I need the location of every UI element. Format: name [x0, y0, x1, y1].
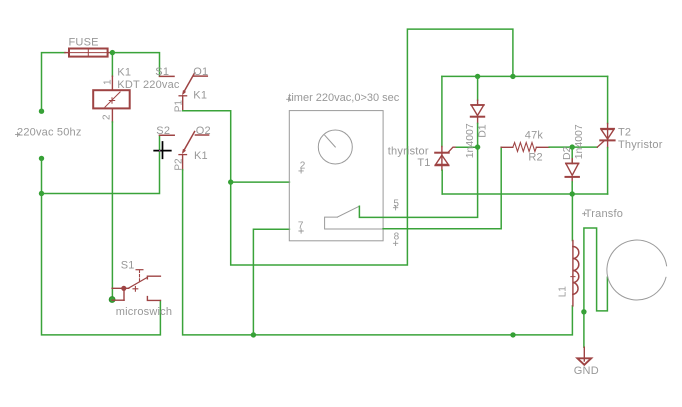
svg-text:timer 220vac,0>30 sec: timer 220vac,0>30 sec [288, 92, 399, 104]
svg-text:microswich: microswich [116, 306, 172, 318]
svg-text:S2: S2 [156, 125, 170, 137]
wire T1 anode [441, 76, 443, 146]
svg-text:O2: O2 [196, 125, 211, 137]
diode D2 1n4007 [561, 124, 585, 194]
cathode rail [442, 193, 607, 195]
thyristor T2 [597, 124, 663, 151]
wire node to L1 [571, 194, 573, 241]
svg-text:R2: R2 [528, 152, 542, 164]
junction D2 anode node [570, 144, 575, 149]
svg-text:8: 8 [394, 232, 400, 243]
wire T2 cathode [607, 148, 609, 194]
svg-text:T2: T2 [618, 127, 631, 139]
wire to GND [583, 312, 585, 347]
junction stub on rail [510, 332, 515, 337]
ground GND [574, 347, 599, 377]
resistor R2 47k [501, 130, 549, 164]
black cross marker [154, 142, 171, 158]
junction secondary/GND [581, 309, 586, 314]
wire to microswitch NC [42, 194, 161, 335]
svg-text:K1: K1 [194, 150, 208, 162]
svg-text:P2: P2 [173, 158, 184, 171]
relay contact K1 S1/O1/P1 [155, 66, 208, 112]
svg-text:Thyristor: Thyristor [618, 139, 663, 151]
svg-text:D2: D2 [561, 146, 573, 160]
svg-text:220vac 50hz: 220vac 50hz [17, 127, 82, 139]
thyristor T1 [388, 146, 457, 171]
svg-text:KDT 220vac: KDT 220vac [117, 79, 180, 91]
svg-text:D1: D1 [476, 124, 488, 138]
svg-text:FUSE: FUSE [69, 36, 99, 48]
wire [42, 53, 65, 112]
junction loop top [510, 74, 515, 79]
junction P1 node [228, 179, 233, 184]
anode rail [442, 75, 608, 77]
diode D1 1n4007 [464, 76, 488, 158]
wire node to timer pin2 [231, 181, 290, 183]
junction T1 gate node [475, 144, 480, 149]
wire [111, 53, 113, 77]
svg-text:Transfo: Transfo [585, 208, 623, 220]
node 220vac top terminal [39, 109, 44, 114]
transformer label Transfo [583, 208, 623, 220]
load circle [607, 240, 667, 300]
wire P2 down to bottom rail and to L1 [183, 170, 573, 335]
junction D1 anode [475, 74, 480, 79]
timer box [287, 92, 400, 245]
wire timer pin5 to T1 gate node [359, 147, 477, 217]
wire timer pin7 [253, 229, 289, 335]
wire coil pin2 to microswitch [111, 122, 113, 299]
node 220vac bottom terminal [39, 156, 44, 161]
relay coil K1 KDT 220vac [93, 67, 180, 122]
svg-text:thyristor: thyristor [388, 146, 429, 158]
microswitch S1 [109, 260, 172, 319]
inductor L1 [557, 241, 579, 306]
svg-text:T1: T1 [417, 157, 430, 169]
svg-text:S1: S1 [121, 260, 135, 272]
svg-text:S1: S1 [155, 66, 169, 78]
svg-text:1: 1 [102, 79, 113, 85]
wire to S2 [42, 136, 160, 194]
relay contact K1 S2/O2/P2 [156, 125, 211, 171]
wire to T2 gate [572, 146, 597, 148]
svg-text:K1: K1 [117, 67, 131, 79]
junction pin7 riser on rail [251, 332, 256, 337]
wire T2 anode [607, 76, 609, 123]
wire timer pin8 to R2 [383, 147, 501, 229]
svg-text:GND: GND [574, 365, 599, 377]
wire T1 gate [456, 146, 477, 148]
wire node loop to top anode rail [231, 29, 513, 265]
junction fuse/K1 [110, 50, 115, 55]
source label 220vac 50hz [16, 127, 82, 139]
junction L1 node [570, 191, 575, 196]
wire [41, 158, 43, 193]
wire P1 to node [183, 111, 231, 182]
svg-text:O1: O1 [193, 66, 208, 78]
fuse FUSE [65, 36, 113, 56]
svg-text:L1: L1 [557, 286, 568, 298]
svg-text:1n4007: 1n4007 [464, 123, 476, 158]
transformer secondary loop [584, 228, 608, 312]
wire T1 cathode [441, 170, 443, 194]
svg-text:47k: 47k [525, 130, 544, 142]
svg-text:1n4007: 1n4007 [573, 124, 585, 159]
svg-text:K1: K1 [193, 89, 207, 101]
wire [112, 53, 159, 76]
wire R2 to D2 node [549, 146, 572, 148]
svg-text:2: 2 [102, 114, 113, 120]
junction source bottom [39, 191, 44, 196]
